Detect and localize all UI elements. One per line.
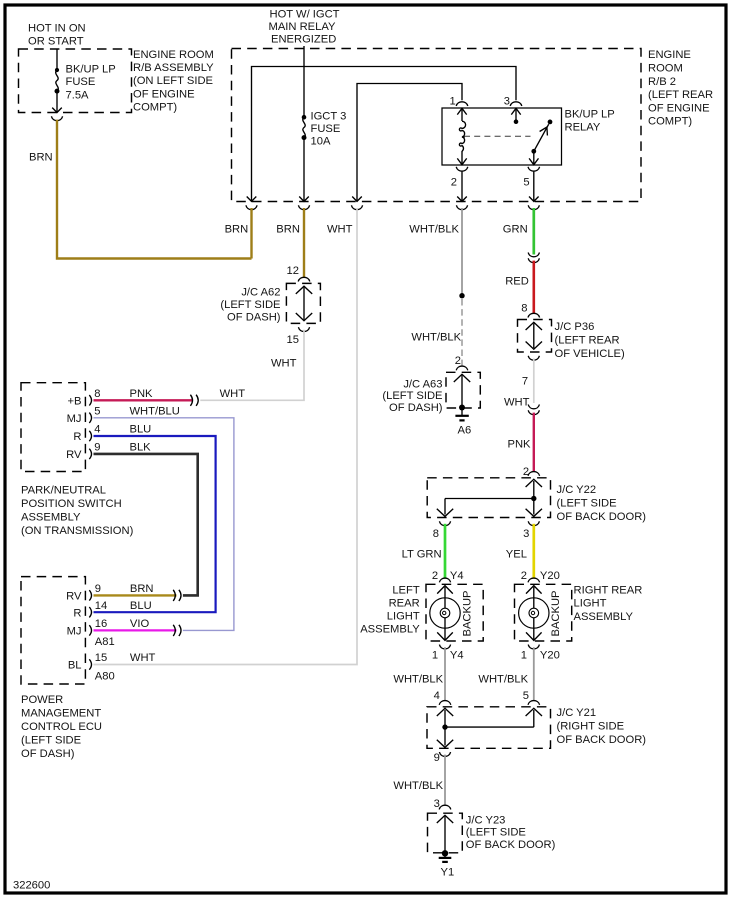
wire WHT A62 to switch splice <box>200 330 304 401</box>
power management control ECU box <box>21 577 85 684</box>
svg-text:LIGHT: LIGHT <box>387 611 420 623</box>
svg-text:5: 5 <box>523 177 529 189</box>
svg-text:MJ: MJ <box>67 413 82 425</box>
svg-text:Y4: Y4 <box>450 649 464 661</box>
wire WHT/BLK left light to Y21 <box>444 647 446 701</box>
svg-text:1: 1 <box>432 649 438 661</box>
fuse box ENGINE ROOM R/B ASSEMBLY <box>19 49 132 113</box>
svg-text:ENGINE: ENGINE <box>648 49 691 61</box>
connector cup at fuse box exit <box>51 116 62 120</box>
svg-text:2: 2 <box>451 177 457 189</box>
wire WHT/BLK dashed to J/C A63 <box>461 299 463 366</box>
wire WHT/BLK R/B2 to junction <box>461 208 463 296</box>
svg-text:BK/UP LP: BK/UP LP <box>565 108 615 120</box>
svg-text:3: 3 <box>434 798 440 810</box>
svg-text:BRN: BRN <box>130 583 154 595</box>
svg-text:REAR: REAR <box>389 598 420 610</box>
svg-text:8: 8 <box>521 302 527 314</box>
svg-text:4: 4 <box>434 690 440 702</box>
ground Y1 <box>442 850 448 856</box>
J/C Y23 connector <box>439 805 451 809</box>
wire BLK RV to splice <box>94 454 198 596</box>
svg-text:BLU: BLU <box>130 600 152 612</box>
svg-text:3: 3 <box>504 96 510 108</box>
pin 3 connector <box>510 102 522 106</box>
svg-text:OF ENGINE: OF ENGINE <box>133 88 195 100</box>
svg-text:ASSEMBLY: ASSEMBLY <box>574 611 634 623</box>
svg-text:(ON TRANSMISSION): (ON TRANSMISSION) <box>21 525 134 537</box>
svg-text:(LEFT SIDE: (LEFT SIDE <box>557 498 617 510</box>
svg-text:WHT/BLK: WHT/BLK <box>409 224 459 236</box>
svg-text:OR START: OR START <box>28 36 84 48</box>
svg-text:LEFT: LEFT <box>392 585 420 597</box>
svg-text:R: R <box>73 431 81 443</box>
pin 5 connector <box>528 167 540 171</box>
svg-text:15: 15 <box>287 334 299 346</box>
coil-switch dashed link <box>464 135 531 137</box>
wire WHT P36 to splice <box>533 358 535 403</box>
svg-text:BACKUP: BACKUP <box>462 590 474 636</box>
svg-text:CONTROL ECU: CONTROL ECU <box>21 721 102 733</box>
G3 middle column: A62, A63, P36 <box>94 208 626 665</box>
svg-text:OF ENGINE: OF ENGINE <box>648 102 710 114</box>
pin 3 cup <box>528 521 539 525</box>
svg-text:RIGHT REAR: RIGHT REAR <box>574 584 643 596</box>
wire VIO MJ to splice <box>94 629 177 631</box>
svg-text:A81: A81 <box>95 636 115 648</box>
fuse IGCT 3 10A <box>302 115 307 120</box>
splice connector BRN/BLK <box>173 590 175 601</box>
svg-text:WHT: WHT <box>271 358 297 370</box>
left backup bulb <box>437 586 453 594</box>
J/C A63 connector <box>456 366 468 370</box>
svg-text:J/C Y22: J/C Y22 <box>557 484 597 496</box>
wire WHT/BLU MJ to MJ <box>94 418 234 631</box>
svg-text:A80: A80 <box>95 670 115 682</box>
svg-text:J/C A62: J/C A62 <box>241 287 280 299</box>
svg-text:ROOM: ROOM <box>648 63 683 75</box>
G5 back door area: Y22, lights, Y21, Y23 <box>360 466 646 879</box>
svg-text:(LEFT REAR: (LEFT REAR <box>555 335 620 347</box>
svg-text:BLU: BLU <box>130 424 152 436</box>
right rear light assembly box <box>528 578 540 582</box>
svg-text:J/C Y21: J/C Y21 <box>557 707 597 719</box>
svg-text:2: 2 <box>455 355 461 367</box>
svg-text:8: 8 <box>433 528 439 540</box>
exit cups under R/B 2 <box>246 205 257 209</box>
svg-text:COMPT): COMPT) <box>648 116 692 128</box>
wire BRN fuse to R/B2 junction <box>57 120 252 259</box>
svg-text:MANAGEMENT: MANAGEMENT <box>21 708 101 720</box>
svg-text:PNK: PNK <box>130 388 154 400</box>
pin 7 <box>528 356 539 360</box>
fuse BK/UP LP 7.5A <box>55 68 59 72</box>
svg-text:WHT/BLK: WHT/BLK <box>411 332 461 344</box>
wire YEL <box>532 524 535 579</box>
svg-text:WHT: WHT <box>504 396 530 408</box>
wire PNK +B to splice <box>94 399 193 401</box>
splice connector VIO/WHT-BLU <box>173 625 175 636</box>
svg-text:5: 5 <box>94 406 100 418</box>
wire BRN RV to splice <box>94 594 177 596</box>
svg-text:BRN: BRN <box>276 224 300 236</box>
svg-text:WHT/BLK: WHT/BLK <box>393 674 443 686</box>
svg-text:POWER: POWER <box>21 694 63 706</box>
svg-text:IGCT 3: IGCT 3 <box>311 110 347 122</box>
relay coil <box>457 108 466 114</box>
svg-text:(LEFT SIDE: (LEFT SIDE <box>220 299 280 311</box>
wire HOT W/ IGCT feed <box>303 46 305 117</box>
svg-text:WHT/BLK: WHT/BLK <box>478 674 528 686</box>
svg-text:9: 9 <box>434 752 440 764</box>
svg-text:16: 16 <box>95 618 107 630</box>
G4 left switch and ECU <box>21 383 245 760</box>
svg-text:WHT: WHT <box>327 224 353 236</box>
svg-text:BRN: BRN <box>29 151 53 163</box>
switch arm pins 3-5 <box>548 120 553 125</box>
splice connector PNK/WHT <box>190 395 192 406</box>
svg-text:HOT IN ON: HOT IN ON <box>28 23 86 35</box>
svg-text:(LEFT SIDE: (LEFT SIDE <box>382 390 442 402</box>
svg-text:A6: A6 <box>458 424 472 436</box>
pin 1 connector <box>456 102 468 106</box>
svg-text:COMPT): COMPT) <box>133 102 177 114</box>
wire WHT/BLK Y21 to Y23 <box>444 755 446 806</box>
wire WHT R/B2 down to ECU pin BL <box>94 208 358 665</box>
svg-text:OF DASH): OF DASH) <box>389 402 443 414</box>
svg-text:Y20: Y20 <box>540 649 560 661</box>
svg-text:J/C A63: J/C A63 <box>403 378 442 390</box>
svg-text:8: 8 <box>94 388 100 400</box>
wire into fuse <box>56 49 58 70</box>
svg-text:4: 4 <box>94 424 100 436</box>
svg-text:15: 15 <box>95 652 107 664</box>
svg-text:WHT: WHT <box>130 652 156 664</box>
wire fuse to box edge <box>56 93 58 112</box>
wire RED <box>532 261 535 314</box>
svg-text:(ON LEFT SIDE: (ON LEFT SIDE <box>133 75 213 87</box>
svg-text:FUSE: FUSE <box>66 76 96 88</box>
svg-text:J/C Y23: J/C Y23 <box>466 814 506 826</box>
svg-text:2: 2 <box>432 570 438 582</box>
svg-text:2: 2 <box>521 570 527 582</box>
svg-text:(LEFT SIDE: (LEFT SIDE <box>21 734 81 746</box>
wire bus BRN riser to relay pin 3 <box>252 67 517 202</box>
svg-text:Y1: Y1 <box>441 866 455 878</box>
wire BRN R/B2 to J/C A62 <box>303 208 305 278</box>
svg-text:BLK: BLK <box>130 442 152 454</box>
svg-text:BRN: BRN <box>225 224 249 236</box>
svg-text:ENGINE ROOM: ENGINE ROOM <box>133 49 214 61</box>
svg-text:LT GRN: LT GRN <box>402 549 442 561</box>
svg-text:OF VEHICLE): OF VEHICLE) <box>555 348 626 360</box>
svg-text:Y4: Y4 <box>450 570 464 582</box>
svg-text:7: 7 <box>522 376 528 388</box>
svg-text:HOT W/ IGCT: HOT W/ IGCT <box>270 9 340 21</box>
svg-text:RV: RV <box>66 449 82 461</box>
pin 15 <box>298 327 309 331</box>
J/C Y22 connector <box>528 472 540 476</box>
pin 9 cup <box>439 752 450 756</box>
svg-text:14: 14 <box>95 600 107 612</box>
svg-text:7.5A: 7.5A <box>66 89 90 101</box>
svg-text:MJ: MJ <box>67 626 82 638</box>
svg-text:VIO: VIO <box>130 618 150 630</box>
svg-text:R: R <box>73 607 81 619</box>
svg-text:RED: RED <box>505 275 529 287</box>
pin 8 cup <box>439 521 450 525</box>
svg-text:ASSEMBLY: ASSEMBLY <box>360 623 420 635</box>
svg-text:1: 1 <box>521 649 527 661</box>
pin 5 wire to box bottom <box>533 172 535 201</box>
junction box ENGINE ROOM R/B 2 <box>232 49 642 202</box>
left rear light assembly box <box>439 578 450 582</box>
svg-text:R/B 2: R/B 2 <box>648 76 676 88</box>
svg-text:R/B ASSEMBLY: R/B ASSEMBLY <box>133 62 214 74</box>
svg-text:GRN: GRN <box>503 224 528 236</box>
svg-text:12: 12 <box>287 265 299 277</box>
svg-text:OF BACK DOOR): OF BACK DOOR) <box>466 839 556 851</box>
svg-text:ENERGIZED: ENERGIZED <box>271 34 336 46</box>
J/C P36 connector <box>528 313 540 317</box>
svg-text:OF DASH): OF DASH) <box>227 312 281 324</box>
svg-text:(LEFT SIDE: (LEFT SIDE <box>466 827 526 839</box>
svg-text:RV: RV <box>66 591 82 603</box>
svg-text:OF BACK DOOR): OF BACK DOOR) <box>557 511 647 523</box>
svg-text:PNK: PNK <box>508 438 532 450</box>
svg-text:WHT/BLK: WHT/BLK <box>393 780 443 792</box>
svg-text:YEL: YEL <box>506 549 527 561</box>
svg-text:PARK/NEUTRAL: PARK/NEUTRAL <box>21 485 106 497</box>
right backup bulb <box>526 586 542 594</box>
svg-text:WHT: WHT <box>220 388 246 400</box>
svg-text:2: 2 <box>523 466 529 478</box>
J/C A62 connector <box>298 277 310 281</box>
wire WHT riser to relay pin 1 <box>357 84 462 202</box>
svg-text:FUSE: FUSE <box>311 123 341 135</box>
svg-text:+B: +B <box>68 396 82 408</box>
svg-text:BK/UP LP: BK/UP LP <box>66 63 116 75</box>
svg-text:Y20: Y20 <box>540 570 560 582</box>
wire BRN from R/B 2 to junction <box>250 208 252 259</box>
G1 top-left fuse area <box>19 23 252 259</box>
svg-text:ASSEMBLY: ASSEMBLY <box>21 511 81 523</box>
svg-text:OF DASH): OF DASH) <box>21 748 75 760</box>
svg-text:1: 1 <box>450 96 456 108</box>
svg-text:BL: BL <box>68 660 82 672</box>
svg-text:322600: 322600 <box>13 880 50 892</box>
wire BLU R to R <box>94 436 216 612</box>
pin 1 cups and labels <box>439 645 450 649</box>
wire WHT/BLK right light to Y21 <box>533 647 535 701</box>
wire LT GRN <box>444 524 447 579</box>
svg-text:9: 9 <box>94 442 100 454</box>
junction node <box>459 293 464 298</box>
wire GRN R/B2 to splice <box>532 208 535 255</box>
svg-text:POSITION SWITCH: POSITION SWITCH <box>21 498 122 510</box>
svg-text:MAIN RELAY: MAIN RELAY <box>269 21 336 33</box>
svg-text:10A: 10A <box>311 135 331 147</box>
pin 3 stub and contact <box>511 108 520 114</box>
pin 2 wire to box bottom <box>461 172 463 201</box>
svg-text:OF BACK DOOR): OF BACK DOOR) <box>557 734 647 746</box>
ground A6 <box>459 405 465 411</box>
wire PNK to J/C Y22 <box>533 413 535 472</box>
svg-text:LIGHT: LIGHT <box>574 598 607 610</box>
svg-text:RELAY: RELAY <box>565 122 601 134</box>
splice connector WHT/PNK <box>528 405 539 409</box>
svg-text:BACKUP: BACKUP <box>550 590 562 636</box>
G2 engine room R/B 2 box and relay <box>225 9 713 259</box>
park/neutral position switch box <box>21 383 85 472</box>
svg-text:3: 3 <box>523 528 529 540</box>
svg-text:WHT/BLU: WHT/BLU <box>130 406 180 418</box>
svg-text:5: 5 <box>523 690 529 702</box>
svg-text:9: 9 <box>95 583 101 595</box>
svg-text:J/C P36: J/C P36 <box>555 321 595 333</box>
relay U1 BK/UP LP RELAY <box>442 108 562 165</box>
wire IGCT fuse to box bottom <box>303 139 305 201</box>
pin 2 connector <box>456 167 468 171</box>
splice connector GRN/RED <box>528 253 539 257</box>
svg-text:(RIGHT SIDE: (RIGHT SIDE <box>557 720 625 732</box>
J/C Y21 connector <box>439 701 451 705</box>
svg-text:(LEFT REAR: (LEFT REAR <box>648 89 713 101</box>
